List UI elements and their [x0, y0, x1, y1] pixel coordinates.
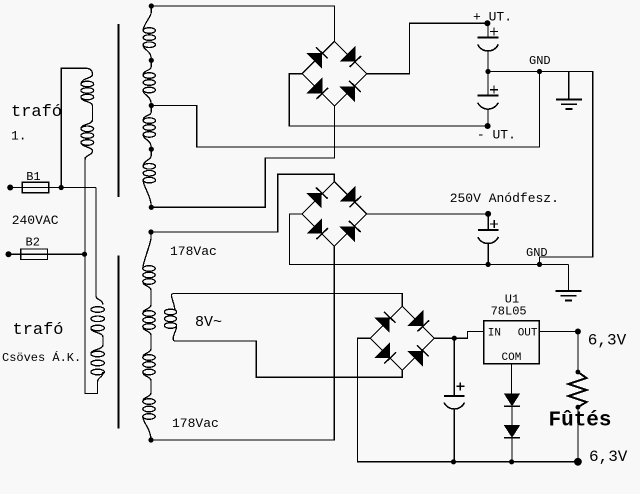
node 250V terminal: [485, 211, 491, 217]
svg-text:8V~: 8V~: [195, 314, 222, 331]
bridge rectifier D3: [370, 306, 434, 370]
node mains N terminal: [6, 251, 12, 257]
fuse B2: [9, 236, 62, 260]
svg-text:IN: IN: [488, 328, 501, 340]
node sec1 center tap: [149, 103, 154, 108]
wire GND rail right side: [540, 72, 593, 265]
svg-text:78L05: 78L05: [491, 304, 527, 318]
capacitor C1: [478, 23, 499, 71]
svg-text:B2: B2: [26, 236, 40, 250]
wire cap midpoint to GND node: [488, 71, 540, 73]
node sec1 joint a: [149, 58, 154, 63]
svg-text:COM: COM: [502, 352, 522, 364]
wire bridge D1 minus to -UT: [289, 74, 488, 126]
wire primary bottoms rail: [85, 157, 98, 394]
transformer T2 primary winding: [91, 296, 105, 382]
node -UT terminal: [485, 123, 491, 129]
node sec2 top: [148, 229, 153, 234]
wire OUT node down to resistor: [577, 332, 579, 373]
svg-text:GND: GND: [529, 54, 551, 68]
svg-text:6,3V: 6,3V: [589, 448, 628, 466]
node GND lower: [537, 262, 542, 267]
wire sec1 bottom to bridge D1 AC bottom: [151, 106, 334, 207]
resistor Fûtés heater: [569, 372, 587, 407]
bridge rectifier D1: [302, 41, 367, 106]
wire B1 to primaries junction: [49, 187, 96, 189]
node sec2 bottom: [148, 437, 153, 442]
label trafó Csöves Á.K.: [2, 321, 81, 365]
wire bridge D2 minus to GND lower: [290, 214, 540, 265]
label trafó 1.: [11, 103, 62, 144]
node GND upper: [537, 69, 542, 74]
svg-text:250V Anódfesz.: 250V Anódfesz.: [450, 191, 559, 206]
node sec1 bottom: [149, 205, 154, 210]
T1 secondary winding: [143, 6, 155, 207]
node C4 bottom on rail: [451, 459, 456, 464]
bridge rectifier D2: [302, 182, 367, 247]
svg-text:240VAC: 240VAC: [12, 213, 59, 228]
wire sec1 center tap to GND: [151, 72, 539, 148]
regulator U1 78L05: [484, 292, 540, 364]
node bridge D3 plus junction: [452, 336, 457, 341]
svg-text:- UT.: - UT.: [477, 128, 516, 143]
wire junction up to T1 primary top: [61, 68, 85, 187]
svg-text:178Vac: 178Vac: [170, 244, 217, 259]
T1 core: [118, 24, 120, 197]
svg-text:GND: GND: [526, 246, 548, 260]
wire bridge D2 plus to 250V terminal: [367, 213, 489, 215]
wire U1 OUT to 6,3V top: [539, 331, 578, 333]
wire bridge D1 plus to +UT: [367, 23, 488, 73]
transformer T1 primary winding: [81, 68, 94, 160]
svg-text:Csöves Á.K.: Csöves Á.K.: [2, 350, 81, 365]
node C1/C2 midpoint: [485, 69, 490, 74]
svg-text:1.: 1.: [11, 129, 27, 144]
wire B2 to junction: [47, 253, 84, 255]
node resistor top: [576, 370, 581, 375]
svg-text:6,3V: 6,3V: [588, 332, 627, 350]
node junction B2/primary bottoms: [82, 252, 87, 257]
wire 8V top to bridge D3 AC top: [173, 294, 402, 307]
svg-text:Fûtés: Fûtés: [549, 410, 612, 433]
svg-text:+ UT.: + UT.: [473, 10, 512, 25]
wire sec2 bottom to bridge D2 AC bottom: [151, 246, 334, 440]
diode D4: [504, 394, 520, 407]
svg-text:178Vac: 178Vac: [172, 416, 219, 431]
T2 secondary winding 8V: [164, 294, 176, 342]
T2 core: [118, 256, 120, 429]
svg-text:trafó: trafó: [11, 103, 62, 122]
wire GND lower to ground symbol: [540, 264, 569, 291]
ground symbol lower: [540, 264, 582, 300]
wire D5 to rail: [511, 438, 513, 462]
node sec1 joint b: [149, 147, 154, 152]
node 6,3V bottom terminal: [574, 458, 582, 466]
T2 secondary winding 178Vac: [143, 232, 155, 440]
wire U1 COM down: [511, 364, 513, 394]
capacitor C3: [478, 214, 499, 265]
wire junction down to T2 primary top: [95, 188, 97, 296]
node C3 bottom junction: [486, 262, 491, 267]
svg-text:OUT: OUT: [518, 328, 538, 340]
wire bridge D3 plus to U1 IN: [434, 332, 483, 339]
svg-text:B1: B1: [26, 170, 40, 184]
svg-text:trafó: trafó: [13, 321, 64, 340]
wire bridge D3 minus to 0V rail: [357, 338, 578, 462]
node resistor bottom: [576, 405, 581, 410]
wire sec1 top to bridge D1 AC top: [151, 6, 334, 41]
wire 8V bottom to bridge D3 AC bottom: [174, 341, 402, 377]
node COM chain on rail: [509, 459, 514, 464]
capacitor C4: [444, 338, 465, 462]
capacitor C2: [478, 72, 499, 127]
ground symbol upper: [556, 72, 582, 109]
node sec1 top: [149, 3, 154, 8]
node mains L terminal: [7, 185, 13, 191]
node +UT terminal: [484, 20, 490, 26]
node 6,3V top terminal: [575, 329, 581, 335]
wire sec2 top to bridge D2 AC top: [151, 174, 334, 232]
node junction B1/primaries: [59, 185, 64, 190]
wire resistor bottom to rail: [577, 407, 579, 462]
diode D5: [504, 425, 520, 438]
fuse B1: [10, 170, 62, 193]
wire D4 to D5: [511, 406, 513, 425]
